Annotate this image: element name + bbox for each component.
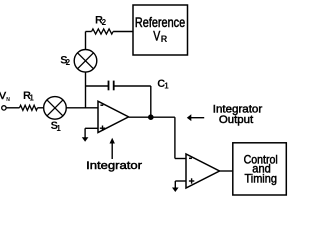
svg-text:Timing: Timing: [245, 172, 277, 186]
svg-text:2: 2: [102, 18, 107, 27]
svg-text:Output: Output: [219, 114, 254, 126]
svg-text:1: 1: [56, 124, 61, 133]
svg-text:R: R: [161, 34, 168, 44]
svg-text:1: 1: [164, 82, 169, 91]
svg-text:2: 2: [66, 58, 71, 67]
svg-text:V: V: [0, 90, 6, 102]
svg-text:1: 1: [29, 94, 34, 103]
svg-text:Integrator: Integrator: [86, 160, 142, 172]
svg-text:V: V: [153, 29, 160, 44]
svg-text:N: N: [6, 97, 10, 103]
